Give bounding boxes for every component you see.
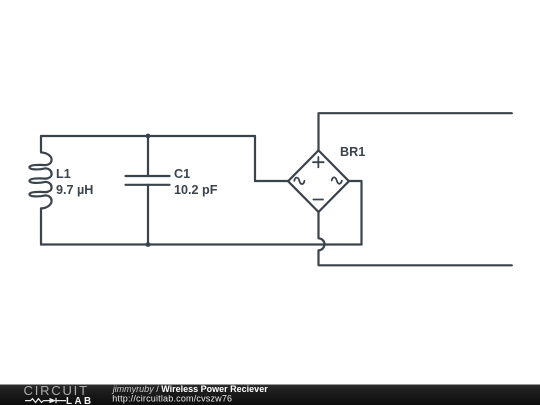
wire from bridge top vertex up and right to output	[319, 113, 512, 150]
node junction dot top of C1	[146, 134, 151, 139]
BR1 plus sign	[313, 157, 324, 167]
bridge rectifier BR1 diamond	[288, 150, 349, 212]
BR1 minus sign	[313, 199, 323, 201]
BR1 right tilde	[332, 177, 342, 183]
wire into bridge left vertex	[255, 180, 289, 182]
capacitor C1 bottom plate	[126, 184, 170, 186]
wire corner down to bridge left level	[254, 136, 256, 181]
capacitor C1 top plate	[126, 175, 170, 177]
svg-text:C1: C1	[174, 167, 190, 181]
capacitor C1 top lead	[147, 136, 149, 176]
svg-text:http://circuitlab.com/cvszw76: http://circuitlab.com/cvszw76	[112, 393, 232, 403]
BR1 left tilde	[294, 178, 304, 184]
footer logo resistor zigzag	[25, 399, 50, 403]
wire from bridge right vertex down to bottom wire	[349, 181, 362, 245]
svg-text:L1: L1	[56, 167, 71, 181]
capacitor C1 bottom lead	[147, 185, 149, 245]
svg-text:BR1: BR1	[340, 145, 365, 159]
wire from bridge bottom vertex down with hop then right to output	[319, 212, 512, 265]
svg-text:LAB: LAB	[66, 396, 94, 405]
footer logo diode	[50, 398, 57, 403]
svg-text:9.7 µH: 9.7 µH	[56, 183, 93, 197]
wire bottom horizontal from L1 to bridge right drop	[41, 243, 362, 245]
inductor L1 coil	[29, 136, 51, 245]
wire top horizontal from L1 to corner	[41, 135, 255, 137]
node junction dot bottom of C1	[146, 242, 151, 247]
svg-text:10.2 pF: 10.2 pF	[174, 183, 218, 197]
